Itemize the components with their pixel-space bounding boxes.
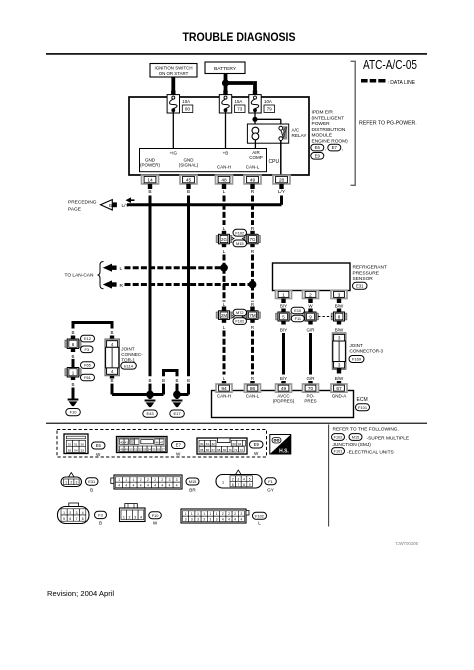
svg-text:4: 4: [243, 477, 245, 481]
connector 8: [331, 309, 347, 325]
svg-text:2: 2: [154, 478, 156, 482]
wire fuse 73 to +B: [225, 111, 227, 149]
svg-text:REFER TO THE FOLLOWING.: REFER TO THE FOLLOWING.: [333, 426, 399, 432]
svg-text:46: 46: [155, 440, 159, 444]
svg-text:50: 50: [81, 442, 85, 446]
connector ref E43: [143, 410, 158, 417]
svg-text:TO LAN-CAN: TO LAN-CAN: [65, 272, 94, 278]
svg-text:7: 7: [76, 517, 78, 521]
svg-text:3: 3: [185, 518, 187, 522]
connector 6: [65, 336, 81, 353]
svg-text:CAN-L: CAN-L: [246, 164, 260, 169]
wire L/Y horizontal: [127, 203, 282, 206]
svg-text:PRESSURE: PRESSURE: [353, 270, 379, 276]
ground F10: [68, 399, 79, 407]
connector ref F101 following: [332, 448, 345, 455]
svg-text:51: 51: [134, 447, 138, 451]
wire CAN-H dashed to junction: [223, 255, 226, 268]
svg-text:CAN-H: CAN-H: [217, 164, 231, 169]
label joint connector-3: [350, 343, 384, 354]
svg-text:M15: M15: [236, 241, 244, 246]
connector ref E7: [328, 144, 344, 152]
connector ref F1 legend: [265, 478, 277, 493]
svg-text:4: 4: [147, 484, 149, 488]
svg-text:E6: E6: [96, 443, 102, 448]
svg-text:B: B: [148, 189, 151, 195]
arrow to lan-can R: [103, 280, 124, 288]
wire CAN-L dashed to ECM: [251, 331, 254, 375]
svg-text:B: B: [187, 189, 190, 195]
svg-text:RELAY: RELAY: [292, 133, 308, 138]
svg-text:4: 4: [161, 484, 163, 488]
svg-text:2: 2: [232, 477, 234, 481]
svg-text:CAN-L: CAN-L: [246, 394, 260, 399]
svg-text:F61: F61: [84, 375, 91, 380]
svg-text:79: 79: [267, 107, 272, 112]
svg-text:49: 49: [250, 178, 256, 184]
svg-text:ON OR START: ON OR START: [159, 71, 189, 76]
svg-text:W: W: [176, 452, 181, 457]
label L/Y preceding: [122, 203, 130, 209]
svg-text:B: B: [109, 203, 112, 208]
SMJ continuation marks: [232, 237, 246, 240]
pin 67 ECM: [331, 384, 347, 392]
svg-text:W: W: [96, 452, 101, 457]
svg-text:F11: F11: [295, 316, 301, 321]
svg-text:(SIGNAL): (SIGNAL): [179, 163, 199, 168]
wire connector6 to connector1: [72, 359, 75, 367]
svg-text:54: 54: [74, 448, 78, 452]
wire battery to fuse 15A: [224, 74, 228, 97]
svg-text:70: 70: [228, 448, 232, 452]
svg-text:4: 4: [82, 511, 84, 515]
pin 28 IPDM: [273, 175, 290, 189]
svg-text:3: 3: [238, 477, 240, 481]
svg-text:2: 2: [234, 512, 236, 516]
svg-text:B: B: [162, 378, 165, 383]
svg-text:4: 4: [154, 484, 156, 488]
svg-text:F10: F10: [152, 513, 160, 518]
svg-text:14: 14: [147, 178, 153, 184]
preceding page arrow: [68, 200, 117, 213]
svg-text:POWER: POWER: [312, 121, 331, 127]
label electrical units: [347, 449, 394, 455]
svg-text:4: 4: [125, 484, 127, 488]
svg-text:F102: F102: [235, 319, 244, 324]
connector ref F102 following: [332, 434, 348, 442]
svg-text:TROUBLE DIAGNOSIS: TROUBLE DIAGNOSIS: [183, 30, 296, 44]
connector ref E6 legend: [92, 442, 106, 457]
connector ref E31 legend: [86, 478, 99, 493]
connector face E6: [64, 434, 88, 454]
direction arrow: [126, 197, 135, 203]
svg-text:2: 2: [70, 481, 72, 485]
SMJ2 continuation marks: [232, 315, 245, 318]
label L above SMJ: [223, 226, 226, 232]
svg-text:R: R: [251, 189, 255, 195]
wire fuse 79 to relay: [254, 111, 256, 126]
svg-text:W: W: [153, 521, 158, 526]
svg-text:53: 53: [143, 447, 147, 451]
svg-text:(POWER): (POWER): [140, 163, 160, 168]
svg-text:86: 86: [250, 386, 256, 392]
svg-text:B/Y: B/Y: [280, 304, 287, 309]
node CAN-L junction: [249, 281, 257, 289]
svg-text:GY: GY: [267, 488, 274, 493]
label refer to the following: [333, 426, 399, 432]
svg-text:2: 2: [147, 478, 149, 482]
wire G/R down: [309, 333, 312, 375]
wire labels below sensor: [280, 304, 344, 309]
connector 9: [303, 309, 319, 325]
label B bridge right: [110, 330, 113, 335]
connector ref F102 legend: [253, 512, 267, 525]
svg-text:63: 63: [232, 442, 236, 446]
figure code: [395, 541, 418, 546]
connector face E7: [117, 437, 168, 453]
svg-text:B: B: [71, 330, 74, 335]
section bracket: [351, 61, 356, 185]
ground E17: [172, 400, 183, 408]
pin 48 IPDM: [216, 175, 233, 189]
wire into ground E43: [149, 395, 152, 400]
svg-text:4: 4: [228, 518, 230, 522]
label TO LAN-CAN: [65, 272, 94, 278]
svg-text:62: 62: [212, 442, 216, 446]
battery box: [205, 62, 245, 74]
svg-text:ECM: ECM: [357, 397, 368, 403]
svg-text:E114: E114: [124, 363, 134, 368]
svg-text:B: B: [99, 521, 102, 526]
svg-text:47: 47: [160, 440, 164, 444]
label L above SMJ2: [223, 302, 226, 307]
svg-text:F169: F169: [352, 357, 362, 362]
connector ref E17: [170, 410, 185, 417]
svg-text:G/R: G/R: [306, 328, 315, 333]
svg-text:B/Y: B/Y: [280, 376, 287, 381]
svg-text:65: 65: [200, 448, 204, 452]
note REFER TO PG-POWER: [359, 121, 417, 127]
svg-text:49: 49: [281, 386, 287, 392]
svg-text:1: 1: [282, 292, 285, 298]
wire ignition to fuse 10A: [171, 77, 175, 96]
svg-text:7G: 7G: [249, 237, 256, 242]
pin 45 IPDM: [180, 175, 197, 189]
svg-text:Revision; 2004 April: Revision; 2004 April: [47, 589, 114, 598]
svg-text:8: 8: [82, 517, 84, 521]
svg-text:E9: E9: [315, 153, 321, 158]
wire bridge bar: [72, 323, 114, 329]
brace: [98, 262, 104, 289]
svg-text:80: 80: [185, 107, 190, 112]
svg-text:E7: E7: [176, 443, 182, 448]
svg-text:,: ,: [346, 437, 347, 442]
wire CAN-H dashed to ECM: [223, 331, 226, 375]
svg-text:50: 50: [129, 447, 133, 451]
svg-text:E12: E12: [84, 336, 91, 341]
page title TROUBLE DIAGNOSIS: [183, 30, 296, 44]
svg-text:5: 5: [63, 517, 65, 521]
svg-text:1: 1: [197, 512, 199, 516]
CPU inner box: [140, 149, 267, 172]
svg-text:48: 48: [120, 447, 124, 451]
svg-text:E31: E31: [88, 479, 95, 484]
wire to ground F10: [72, 388, 75, 399]
svg-text:9: 9: [249, 483, 251, 487]
svg-text:JOINT: JOINT: [121, 346, 134, 351]
svg-text:BATTERY: BATTERY: [214, 66, 237, 72]
svg-text:3: 3: [203, 518, 205, 522]
svg-text:10A: 10A: [264, 99, 272, 104]
svg-text:3: 3: [210, 518, 212, 522]
connector continuation dashes: [318, 316, 332, 318]
svg-text:2: 2: [309, 292, 312, 298]
svg-text:3: 3: [134, 516, 136, 520]
connector 7M SMJ2: [245, 307, 261, 323]
svg-text:1: 1: [133, 478, 135, 482]
svg-text:52: 52: [139, 447, 143, 451]
connector face F1 legend: [216, 470, 262, 488]
ground bus segments: [150, 393, 189, 396]
wire CAN-L dashed lower: [251, 285, 254, 302]
fuse 10A 80: [167, 91, 193, 114]
connector ref M15 legend: [186, 478, 199, 493]
connector ref F102: [233, 229, 247, 236]
svg-text:55: 55: [68, 448, 72, 452]
svg-text:E6: E6: [315, 145, 321, 150]
label B jumper right: [175, 378, 178, 383]
svg-text:2: 2: [241, 512, 243, 516]
svg-text:7: 7: [238, 483, 240, 487]
svg-text:B: B: [90, 488, 93, 493]
connector 2G SMJ: [216, 231, 232, 247]
svg-text:E7: E7: [332, 145, 338, 150]
svg-text:PRES: PRES: [304, 399, 316, 404]
svg-text:(INTELLIGENT: (INTELLIGENT: [312, 115, 345, 121]
svg-text:4: 4: [241, 518, 243, 522]
legend dashed box: [57, 430, 267, 458]
svg-text:1: 1: [123, 516, 125, 520]
svg-text:52: 52: [68, 442, 72, 446]
connector ref E9 legend: [250, 441, 264, 456]
connector face F10 legend: [120, 504, 146, 522]
svg-text:SENSOR: SENSOR: [353, 276, 374, 282]
svg-text:G/R: G/R: [306, 376, 315, 381]
svg-text:CPU: CPU: [269, 159, 280, 165]
svg-text:40: 40: [120, 440, 124, 444]
svg-text:CONNEC-: CONNEC-: [121, 352, 143, 357]
label L below SMJ: [223, 249, 226, 255]
stubs into ECM pins: [222, 381, 341, 385]
svg-text:1: 1: [216, 512, 218, 516]
connector ref F10 legend: [149, 512, 162, 526]
connector ref F169: [349, 356, 364, 363]
svg-text:DISTRIBUTION: DISTRIBUTION: [312, 127, 346, 133]
svg-text:8: 8: [243, 483, 245, 487]
connector ref E31: [353, 282, 368, 289]
svg-text:ENGINE ROOM): ENGINE ROOM): [312, 139, 349, 145]
label ECM: [357, 397, 368, 403]
connector ref F3 legend: [95, 511, 107, 525]
svg-text:2: 2: [228, 512, 230, 516]
pin 3 sensor: [331, 290, 347, 303]
svg-text:2: 2: [161, 478, 163, 482]
svg-text:F3: F3: [98, 513, 103, 518]
pin 86 ECM: [245, 384, 261, 392]
svg-text:4: 4: [222, 518, 224, 522]
svg-text:COMP: COMP: [249, 155, 263, 160]
svg-text:F3: F3: [84, 347, 89, 352]
section divider line: [328, 425, 330, 527]
label B between connectors: [71, 354, 74, 359]
connector 7G SMJ: [245, 231, 261, 247]
label refrigerant pressure sensor: [353, 265, 387, 283]
svg-text:MODULE: MODULE: [312, 133, 333, 139]
svg-text:: DATA LINE: : DATA LINE: [388, 80, 416, 86]
svg-text:-ELECTRICAL UNITS: -ELECTRICAL UNITS: [347, 449, 394, 455]
svg-text:6: 6: [232, 483, 234, 487]
ignition switch box: [150, 64, 197, 78]
svg-text:67: 67: [336, 386, 342, 392]
svg-text:70: 70: [308, 386, 314, 392]
label R above SMJ2: [251, 302, 255, 307]
node battery junction: [222, 79, 229, 86]
svg-text:1: 1: [125, 478, 127, 482]
wire junction to relay contact: [255, 119, 281, 127]
connector ref M72: [233, 309, 247, 316]
wire lan-can R dashed: [125, 283, 253, 286]
svg-text:L: L: [258, 521, 261, 526]
svg-text:3: 3: [216, 518, 218, 522]
connector ref E7 legend: [172, 442, 186, 457]
svg-text:CAN-H: CAN-H: [217, 394, 231, 399]
svg-text:1: 1: [222, 481, 224, 485]
connector ref F10 ground: [66, 409, 81, 416]
svg-text:M15: M15: [352, 436, 359, 440]
connector ref F65: [81, 362, 95, 369]
svg-text:L: L: [223, 249, 226, 255]
revision note: [47, 589, 114, 598]
wire color labels under IPDM: [148, 189, 286, 195]
svg-text:(PDPRES): (PDPRES): [273, 399, 295, 404]
HS logo: [270, 435, 291, 455]
header rule: [46, 53, 427, 55]
connector ref E6: [311, 144, 327, 152]
IPDM E/R outer box: [129, 97, 309, 175]
svg-text:4: 4: [169, 484, 171, 488]
svg-text:F1: F1: [268, 479, 273, 484]
svg-text:60: 60: [200, 442, 204, 446]
wire B/Y down: [282, 333, 285, 375]
svg-text:2: 2: [222, 512, 224, 516]
svg-text:PAGE: PAGE: [68, 207, 81, 213]
connector ref F101: [356, 404, 370, 411]
connector face E9: [197, 438, 247, 454]
wire CAN-H dashed upper: [223, 196, 226, 226]
svg-text:4: 4: [234, 518, 236, 522]
label R above SMJ: [251, 226, 255, 232]
wire lan-can L dashed: [125, 266, 225, 269]
svg-text:BR: BR: [189, 488, 196, 493]
svg-text:54: 54: [148, 447, 152, 451]
pin 70 ECM: [303, 384, 319, 392]
svg-text:M15: M15: [189, 479, 197, 484]
relay A/C RELAY: [247, 124, 307, 143]
label B below JC1: [110, 378, 113, 383]
svg-text:F10: F10: [70, 410, 78, 415]
connector ref F11: [291, 315, 304, 322]
svg-text:F102: F102: [235, 230, 244, 235]
wire JC1 to ground bus: [112, 384, 150, 395]
label B bridge left: [71, 330, 74, 335]
svg-text:B: B: [110, 330, 113, 335]
svg-text:1: 1: [65, 481, 67, 485]
svg-text:67: 67: [212, 448, 216, 452]
ECM pin labels: [217, 394, 346, 404]
svg-text:1: 1: [118, 478, 120, 482]
svg-text:15A: 15A: [235, 99, 243, 104]
label super multiple junction: [333, 435, 410, 448]
label IPDM E/R block: [312, 110, 349, 145]
svg-text:IPDM E/R: IPDM E/R: [312, 110, 334, 116]
svg-text:3: 3: [169, 478, 171, 482]
wire B/W to JC3: [338, 333, 341, 335]
wire into ground E17: [176, 395, 179, 400]
svg-text:R: R: [251, 249, 255, 255]
connector 5: [276, 309, 292, 325]
joint connector-1: [105, 336, 120, 379]
node ground E17: [173, 391, 181, 399]
svg-text:B/W: B/W: [335, 376, 344, 381]
svg-text:-SUPER MULTIPLE: -SUPER MULTIPLE: [367, 435, 410, 441]
svg-text:JOINT: JOINT: [350, 343, 363, 348]
svg-text:B/Y: B/Y: [280, 328, 287, 333]
svg-text:JUNCTION (SMJ): JUNCTION (SMJ): [333, 442, 372, 448]
pin 49 IPDM: [244, 175, 261, 189]
svg-text:55: 55: [152, 447, 156, 451]
refrigerant pressure sensor box: [273, 263, 351, 291]
connector face M15 legend: [111, 475, 182, 489]
svg-text:71: 71: [234, 448, 238, 452]
svg-text:2: 2: [140, 478, 142, 482]
wire relay contact to pin 28: [280, 141, 282, 177]
svg-text:PRECEDING: PRECEDING: [68, 200, 97, 206]
svg-text:4: 4: [140, 516, 142, 520]
connector 2M SMJ2: [216, 307, 232, 323]
svg-text:B: B: [71, 382, 74, 387]
svg-text:57: 57: [162, 447, 166, 451]
svg-text:+B: +B: [223, 151, 229, 156]
svg-text:REFER TO PG-POWER.: REFER TO PG-POWER.: [359, 121, 417, 127]
connector ref E12: [81, 335, 95, 342]
svg-text:REFRIGERANT: REFRIGERANT: [353, 265, 387, 271]
wire CAN-H dashed lower: [223, 268, 226, 302]
pin 94 ECM: [216, 384, 232, 392]
svg-text:E43: E43: [146, 411, 154, 416]
jumper bridge: [162, 371, 179, 395]
svg-text:W: W: [254, 451, 259, 456]
svg-text:3: 3: [191, 518, 193, 522]
connector ref E10: [291, 307, 305, 314]
connector ref E9: [311, 153, 324, 160]
svg-text:A/C: A/C: [292, 128, 300, 133]
svg-text:L: L: [223, 189, 226, 195]
svg-text:4: 4: [133, 484, 135, 488]
connector ref F3: [81, 346, 94, 353]
wire labels above ECM: [223, 376, 344, 381]
data line legend: [361, 79, 416, 86]
svg-text:4: 4: [140, 484, 142, 488]
